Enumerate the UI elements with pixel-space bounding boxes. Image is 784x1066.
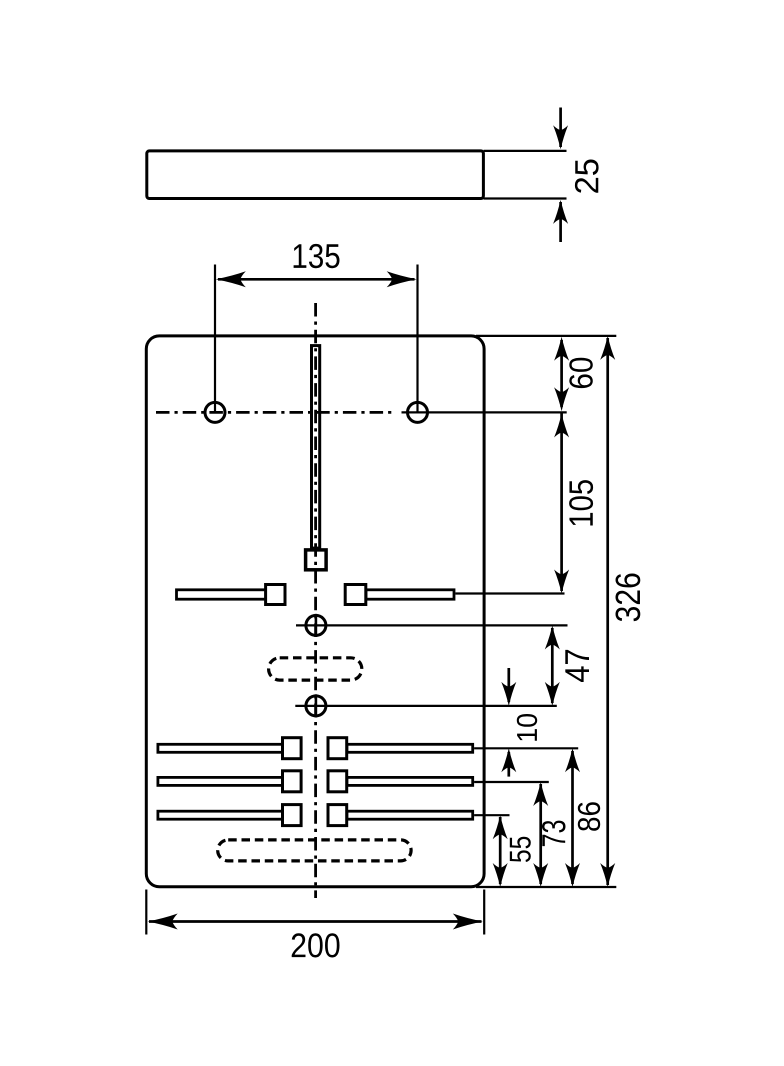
central slot narrow part xyxy=(312,346,320,548)
row1 left slot square xyxy=(283,738,302,759)
dim 10 upper leader xyxy=(507,668,510,702)
dimension 25 upper arrow xyxy=(553,125,568,149)
central slot end square xyxy=(306,550,327,570)
dim 10 lower leader xyxy=(507,752,510,777)
dim 135 right arrow xyxy=(387,271,417,287)
dimension 25 label xyxy=(575,159,599,192)
dim 86 label xyxy=(578,802,600,831)
dim 47 label xyxy=(565,650,589,682)
hole centerline extension to right dims xyxy=(402,411,567,413)
row3 left slot square xyxy=(283,805,302,826)
dim 326 label xyxy=(616,574,641,622)
dim 200 left extension line xyxy=(145,890,147,935)
small dashed obround xyxy=(269,658,362,680)
dim 105 line xyxy=(560,413,563,591)
row2 right slot bar xyxy=(347,777,473,785)
dim 47 line xyxy=(551,628,554,703)
right hole xyxy=(408,402,428,422)
row3 right slot bar xyxy=(347,811,473,819)
dim 60 label xyxy=(569,358,593,388)
side view bottom extension line xyxy=(484,197,567,199)
dim 60 line xyxy=(560,340,563,407)
dim 105 top arrow xyxy=(554,414,569,438)
mid right slot end square xyxy=(345,585,366,605)
dim 10 lower arrow xyxy=(501,748,516,772)
side view top extension line xyxy=(484,150,567,152)
row3 extension line xyxy=(474,814,509,816)
row2 extension line xyxy=(474,781,549,783)
dim 326 line xyxy=(606,338,609,885)
dim 200 right arrow xyxy=(453,914,483,930)
dim 55 top arrow xyxy=(493,815,508,839)
dim 47 bottom arrow xyxy=(545,682,560,706)
small circle 1 xyxy=(306,615,326,635)
dim 86 top arrow xyxy=(565,748,580,772)
dim 73 label xyxy=(542,821,566,847)
small circle 1 vertical cross xyxy=(315,614,318,637)
dim 47 top arrow xyxy=(545,626,560,650)
dim 135 left arrow xyxy=(216,271,246,287)
dimension 25 upper leader xyxy=(559,108,562,148)
dimension 25 lower leader xyxy=(559,202,562,242)
dim 135 left extension line xyxy=(214,265,216,413)
left hole xyxy=(205,402,225,422)
dimension 25 lower arrow xyxy=(553,200,568,224)
mid left slot bar xyxy=(177,590,280,599)
dim 55 line xyxy=(499,817,502,884)
dim 105 bottom arrow xyxy=(554,570,569,594)
row1 extension line xyxy=(474,747,578,749)
small circle 2 horizontal line to dim 10 xyxy=(295,705,557,707)
dim 200 right extension line xyxy=(483,890,485,935)
small circle 1 horizontal line to dim 47 xyxy=(296,624,568,626)
dim 86 line xyxy=(571,751,574,884)
dim 55 bottom arrow xyxy=(493,863,508,887)
dim 200 left arrow xyxy=(148,914,178,930)
dim 10 upper arrow xyxy=(501,682,516,706)
mid right slot bar xyxy=(366,590,454,599)
dim 60 bottom arrow xyxy=(554,387,569,411)
dim 135 line xyxy=(218,278,415,281)
dim 135 right extension line xyxy=(416,265,418,413)
row1 right slot bar xyxy=(347,744,473,752)
vertical center line xyxy=(314,303,317,898)
row3 right slot square xyxy=(328,805,347,826)
plate top edge extension line xyxy=(476,335,616,337)
row2 right slot square xyxy=(328,771,347,792)
plate bottom extension line xyxy=(476,886,616,888)
dim 73 bottom arrow xyxy=(533,863,548,887)
main view plate outline xyxy=(146,336,484,887)
dim 60 top arrow xyxy=(554,337,569,361)
dim 10 label xyxy=(517,714,537,741)
dim 200 line xyxy=(149,920,482,923)
horizontal center line through holes xyxy=(156,411,394,414)
dim 326 top arrow xyxy=(600,336,615,360)
dim 73 top arrow xyxy=(533,782,548,806)
row2 left slot square xyxy=(283,771,302,792)
dim 326 bottom arrow xyxy=(600,863,615,887)
dim 55 label xyxy=(510,837,531,862)
dim 73 line xyxy=(539,784,542,884)
mid slot extension line to dim 105 xyxy=(455,592,564,594)
mid left slot end square xyxy=(266,585,285,605)
row3 left slot bar xyxy=(158,811,284,819)
dim 135 label xyxy=(294,244,340,268)
dim 105 label xyxy=(569,480,593,525)
dim 200 label xyxy=(292,933,340,957)
small circle 2 vertical cross xyxy=(315,694,318,717)
small circle 2 xyxy=(306,696,326,716)
large dashed obround xyxy=(218,840,411,861)
side view plate outline xyxy=(147,151,484,199)
row1 left slot bar xyxy=(158,744,284,752)
row2 left slot bar xyxy=(158,777,284,785)
dim 86 bottom arrow xyxy=(565,863,580,887)
row1 right slot square xyxy=(328,738,347,759)
